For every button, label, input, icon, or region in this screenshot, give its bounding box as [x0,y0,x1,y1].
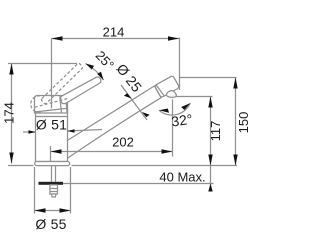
extension line dia55 right [70,167,72,214]
spout tube [67,86,162,159]
dome [35,96,68,114]
svg-text:202: 202 [112,135,134,150]
extension line 202 right (spout tip vertical) [172,100,174,157]
faucet body [36,109,68,162]
dim 202 right arrow [162,149,173,153]
dim dia55 line [35,210,71,212]
dim 202 line [51,151,173,153]
extension line 150 top [180,77,237,79]
lever dashed (raised position) [31,63,84,113]
countertop bottom line [63,183,214,185]
dim dia51 right arrow [68,129,75,133]
body seam [36,116,68,118]
dim 174 bottom arrow [9,153,13,164]
dim dia51 right leader [68,130,103,132]
faucet centerline [51,39,53,109]
dia25 lower arrow [142,112,150,117]
dim 117 top arrow [208,97,212,108]
extension line 117 top [177,96,213,98]
32deg arc left arrow [159,109,169,113]
dim dia51 left leader [23,131,35,133]
collar seam [156,85,165,97]
shank tip [51,194,56,197]
svg-text:Ø 55: Ø 55 [35,216,66,232]
aerator tip [166,91,177,98]
extension line 174 top [8,63,77,65]
dim 214 right arrow [168,36,179,40]
25deg arc arrow upper [86,64,95,70]
dome seam [35,108,68,112]
countertop top line [72,165,238,167]
extension line dia55 left [34,167,36,214]
flange base [35,162,70,166]
dim dia55 right arrow [60,208,71,212]
dim 202 left arrow [51,149,62,153]
svg-text:Ø 51: Ø 51 [36,117,67,133]
25deg arc arrow lower [97,72,103,80]
svg-text:174: 174 [2,102,17,124]
dim 214 line [52,38,180,40]
nut [50,185,58,194]
dim dia55 left arrow [35,208,46,212]
svg-text:117: 117 [208,121,223,142]
washer (dark) [39,182,64,185]
dashed handle butt arc [31,96,41,113]
svg-text:150: 150 [236,112,250,134]
dim 150 top arrow [233,78,237,89]
32deg arc [159,103,190,115]
dia25 upper arrow [124,93,132,98]
extension line right of 214 [179,38,181,91]
dim 174 top arrow [9,64,13,75]
dia25 dimension line [121,85,147,120]
spout collar [154,75,179,97]
dashed rotated-dome edge [35,99,68,108]
lever solid [61,77,101,104]
shank [51,166,53,182]
lever butt left edge [60,96,62,113]
32deg arc right arrow [181,103,190,110]
dim dia51 left arrow [29,130,36,134]
dim 117 line [210,97,212,190]
dim 174 line [11,64,13,164]
dim 117 bottom arrow [208,155,212,166]
dim 214 left arrow [52,36,63,40]
25deg arc [86,64,104,81]
svg-text:25°: 25° [93,48,117,73]
dim 150 line [235,78,237,166]
extension line 202 left [50,146,52,161]
extension line 174 bottom [8,165,34,167]
dim 40max up arrow [208,184,212,192]
dim 150 bottom arrow [233,155,237,166]
svg-text:40 Max.: 40 Max. [159,170,205,185]
lever butt right edge [65,103,68,113]
svg-text:Ø 25: Ø 25 [113,61,145,95]
svg-text:214: 214 [103,25,125,40]
svg-text:32°: 32° [170,111,193,130]
